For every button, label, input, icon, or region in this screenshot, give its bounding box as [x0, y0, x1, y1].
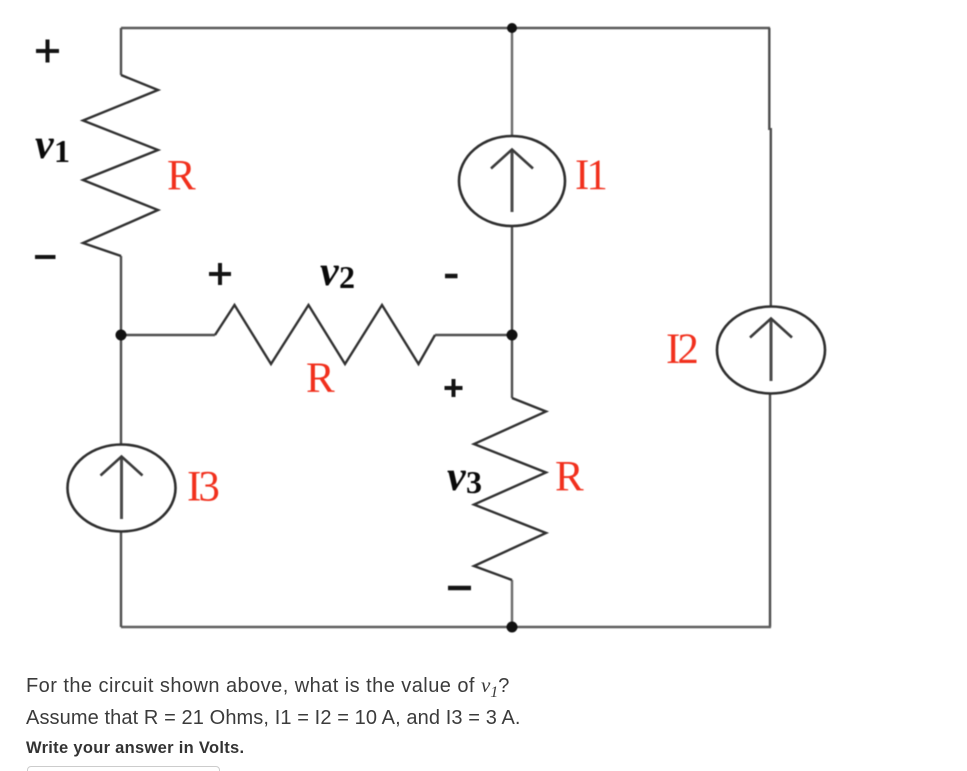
svg-text:R: R [555, 454, 584, 501]
svg-text:v: v [35, 122, 55, 168]
wire left rail bottom segment [120, 531, 122, 627]
current source I2 [717, 307, 825, 394]
node junction top middle [507, 23, 517, 33]
node junction left middle [116, 330, 127, 341]
wire middle rail mid segment [511, 225, 513, 398]
wire right rail lower [769, 393, 771, 627]
resistor R (v2) [215, 305, 435, 364]
resistor R (v1) [83, 75, 158, 256]
minus sign v2 [445, 274, 458, 279]
svg-text:v: v [447, 454, 467, 500]
wire middle horizontal left [121, 334, 215, 336]
wire middle rail top segment [511, 28, 513, 137]
plus sign v1 [36, 40, 59, 63]
question text line 3 [26, 739, 244, 758]
minus sign v3 [448, 586, 471, 591]
wire left rail top segment [120, 28, 122, 75]
wire top rail [121, 27, 770, 29]
wire middle horizontal right [435, 334, 512, 336]
answer input box [27, 766, 220, 771]
resistor R (v3) [474, 398, 546, 580]
plus sign v3 [445, 379, 463, 397]
current source I3 [68, 445, 176, 532]
question text line 1 [26, 673, 510, 702]
minus sign v1 [35, 255, 56, 259]
wire right rail upper [768, 28, 770, 130]
question text line 2 [26, 707, 521, 730]
plus sign v2 [209, 263, 231, 285]
svg-text:1: 1 [54, 133, 70, 169]
svg-text:3: 3 [466, 464, 482, 500]
svg-text:I3: I3 [187, 464, 218, 511]
svg-text:v: v [320, 249, 340, 295]
svg-text:I1: I1 [575, 152, 605, 199]
svg-text:R: R [306, 355, 335, 402]
wire middle rail bottom segment [511, 580, 513, 627]
node junction bottom middle [507, 622, 518, 633]
wire left rail mid segment [120, 256, 122, 445]
svg-text:I2: I2 [666, 326, 697, 373]
wire bottom rail [121, 626, 771, 628]
svg-text:R: R [167, 153, 196, 200]
node junction middle [507, 330, 518, 341]
current source I1 [459, 136, 565, 226]
svg-text:2: 2 [339, 259, 355, 295]
